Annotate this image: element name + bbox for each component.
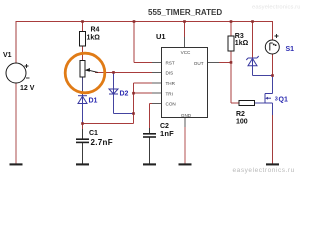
wire D2 bottom elbow [114, 94, 134, 114]
svg-text:easyelectronics.ru: easyelectronics.ru [233, 167, 295, 174]
svg-text:100: 100 [236, 118, 248, 125]
wire node to Q1 drain [272, 76, 274, 94]
wire zener bottom elbow to Q1 drain node [253, 66, 273, 76]
wire top VCC rail [16, 21, 274, 23]
diode D2 [109, 89, 118, 94]
wire node to C1 top plate [82, 124, 84, 140]
svg-text:D1: D1 [89, 98, 98, 105]
wire wiper to DIS pin [95, 71, 162, 73]
wire V1 top [15, 22, 17, 64]
svg-text:D2: D2 [120, 91, 129, 98]
wire node to D2 top [113, 72, 115, 89]
svg-text:C1: C1 [89, 130, 98, 137]
wire OUT pin [219, 61, 231, 63]
resistor R3 [228, 36, 234, 51]
wire rail to zener [252, 22, 254, 59]
wire CON to C2 [150, 103, 162, 134]
ground C2 [143, 163, 156, 165]
ground IC [179, 163, 192, 165]
wire OUT node down to R2 [231, 62, 239, 103]
svg-text:R4: R4 [91, 27, 100, 34]
wire rail to R3 [230, 22, 232, 37]
wire D1 to node C1 [82, 104, 84, 124]
wire S1 bottom to node [272, 54, 274, 76]
wire R2 to Q1 gate [255, 102, 266, 104]
buzzer S1 [265, 34, 279, 54]
diode D1 [78, 96, 87, 104]
wire TRI pin [134, 92, 162, 94]
potentiometer body [80, 61, 98, 78]
transistor Q1 MOSFET [265, 94, 273, 104]
svg-text:Q1: Q1 [279, 97, 288, 104]
svg-text:12 V: 12 V [20, 85, 35, 92]
svg-text:3: 3 [275, 97, 278, 103]
svg-text:VCC: VCC [181, 50, 191, 55]
wire R3 bottom to OUT node [230, 51, 232, 62]
svg-text:2.7nF: 2.7nF [91, 138, 113, 147]
svg-text:1nF: 1nF [160, 129, 174, 138]
ground V1 [10, 163, 23, 165]
resistor R2 [239, 101, 255, 106]
wire RST tie to rail [134, 22, 152, 63]
wire rail corner down to S1 [272, 22, 274, 41]
svg-text:V1: V1 [3, 52, 12, 59]
wire THR TRI vertical bus [133, 83, 135, 124]
svg-text:RST: RST [166, 61, 175, 66]
svg-text:R2: R2 [236, 111, 245, 118]
svg-text:GND: GND [181, 113, 192, 118]
svg-text:TRI: TRI [166, 91, 173, 96]
wire rail to R4 [82, 22, 84, 32]
zener diode [246, 56, 258, 66]
wire C2 bottom to ground [149, 137, 151, 163]
wire THR pin [134, 82, 162, 84]
ground Q1 [266, 163, 279, 165]
wire GND pin to ground [184, 118, 186, 164]
ground C1 [76, 163, 89, 165]
wire RST pin stub [152, 61, 162, 63]
wire C1 bottom to ground [82, 142, 84, 163]
svg-text:CON: CON [166, 102, 176, 107]
svg-text:DIS: DIS [166, 71, 174, 76]
svg-text:easyelectronics.ru: easyelectronics.ru [252, 5, 300, 11]
svg-text:1kΩ: 1kΩ [235, 40, 249, 47]
svg-text:S1: S1 [286, 46, 295, 53]
svg-text:OUT: OUT [194, 61, 204, 66]
op-amp 555 IC U1 box [162, 48, 208, 118]
svg-text:555_TIMER_RATED: 555_TIMER_RATED [148, 8, 222, 17]
capacitor C2 [143, 134, 156, 137]
wire OUT pin stub [208, 61, 220, 63]
svg-text:U1: U1 [156, 32, 166, 41]
wire V1 bottom to ground [15, 83, 17, 163]
resistor R4 [80, 32, 86, 47]
wire node bus to C1 node [83, 123, 134, 125]
wire R4 to potentiometer [82, 46, 84, 61]
wire Q1 source to ground [272, 103, 274, 163]
wire rail to VCC pin [184, 22, 186, 48]
wire potentiometer bottom to D1 [82, 77, 84, 96]
voltage source V1 [6, 63, 30, 83]
svg-text:THR: THR [166, 81, 176, 86]
svg-text:1kΩ: 1kΩ [87, 35, 101, 42]
capacitor C1 [76, 139, 89, 142]
annotation orange circle [65, 53, 105, 93]
